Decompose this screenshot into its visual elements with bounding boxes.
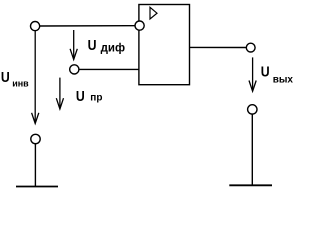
svg-text:пр: пр (90, 92, 102, 103)
wire bottom-left: node to ground (34, 144, 36, 187)
svg-text:U: U (76, 88, 85, 104)
wire output: op-amp to output node (190, 46, 247, 48)
svg-text:диф: диф (101, 43, 125, 55)
op-amp U1 gain triangle symbol (150, 7, 157, 19)
node A terminal circle top-left (30, 22, 39, 31)
inverting input bubble on op-amp (135, 21, 144, 30)
op-amp U1 body (139, 5, 190, 85)
wire bottom-right: node to ground (251, 114, 253, 185)
svg-text:U: U (1, 69, 10, 85)
bottom-right terminal circle (248, 105, 257, 114)
wire middle: node B to op-amp (79, 68, 139, 70)
ground bar left (16, 186, 58, 188)
svg-text:инв: инв (12, 79, 29, 89)
wire top: node A to inverting input (40, 25, 136, 27)
arrow U_pr (59, 78, 61, 109)
arrow U_dif (73, 30, 75, 59)
bottom-left terminal circle (31, 134, 40, 143)
arrowhead on left wire (32, 113, 39, 124)
svg-text:U: U (88, 37, 97, 53)
ground bar right (229, 184, 272, 186)
node B terminal circle middle (70, 65, 79, 74)
svg-text:вых: вых (273, 75, 294, 86)
output terminal circle (246, 43, 255, 52)
arrow U_vyh (252, 57, 254, 90)
svg-text:U: U (261, 63, 270, 79)
wire left vertical from node A down (34, 31, 36, 123)
